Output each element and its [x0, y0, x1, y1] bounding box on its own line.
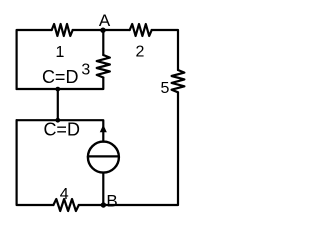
- wire node B to R4: [79, 204, 104, 206]
- wire second C=D rail to current source top: [17, 120, 104, 141]
- node B junction dot: [101, 202, 106, 207]
- resistor R1: [52, 24, 73, 36]
- wire top right corner down to R5: [152, 30, 178, 70]
- current source horizontal bar: [88, 155, 119, 157]
- value label 1 serif foot: [57, 56, 63, 57]
- wire current source bottom to node B: [102, 173, 104, 205]
- wire R5 down to bottom right corner: [103, 92, 178, 205]
- resistor R3: [97, 55, 110, 78]
- svg-text:A: A: [99, 11, 111, 30]
- svg-text:2: 2: [136, 43, 145, 60]
- wire connector between C=D nodes: [57, 89, 59, 120]
- svg-text:3: 3: [81, 61, 90, 78]
- svg-text:5: 5: [161, 80, 170, 97]
- svg-text:B: B: [106, 191, 117, 210]
- svg-text:4: 4: [60, 186, 69, 203]
- node C=D lower junction dot: [55, 118, 60, 123]
- svg-text:C=D: C=D: [42, 67, 79, 87]
- current source I1 circle: [88, 142, 119, 173]
- wire top left (corner to R1): [17, 30, 52, 89]
- resistor R4: [53, 199, 78, 211]
- resistor R5: [172, 70, 185, 92]
- wire R4 to bottom left corner up to second C=D wire: [17, 120, 54, 205]
- node C=D upper junction dot: [55, 87, 60, 92]
- resistor R2: [130, 24, 152, 36]
- current source arrow head: [100, 125, 107, 133]
- wire R1 to R2 through node A: [73, 29, 130, 31]
- wire R3 bottom to first C=D wire: [17, 78, 104, 90]
- node A junction dot: [100, 28, 105, 33]
- svg-text:1: 1: [56, 44, 65, 61]
- wire lead node A down to R3: [102, 30, 104, 55]
- svg-text:C=D: C=D: [43, 119, 80, 139]
